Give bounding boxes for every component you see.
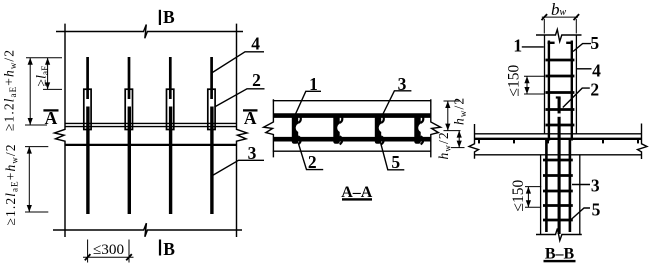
lower wall tie 1	[543, 159, 573, 162]
slab bar tick 2	[513, 140, 515, 143]
right break line	[431, 99, 441, 157]
leader label 4	[576, 68, 591, 70]
svg-text:5: 5	[391, 152, 400, 172]
arrow down dim laE	[45, 82, 50, 89]
floor slab second line	[65, 126, 237, 128]
floor slab bottom line	[65, 144, 237, 146]
slab right break	[638, 124, 648, 160]
upper wall tie 5	[546, 124, 575, 127]
lower wall right vertical bar	[569, 140, 572, 233]
svg-text:5: 5	[592, 199, 601, 219]
center dowel bar	[558, 98, 561, 235]
bar pair blob 2	[333, 115, 345, 145]
dim bw extension left	[543, 19, 545, 34]
slab bar tick 3	[547, 140, 549, 143]
dim bw line	[542, 16, 578, 18]
rebar 4 lower thick	[210, 107, 213, 215]
wall left edge line with break	[55, 24, 66, 237]
svg-text:A: A	[45, 108, 58, 128]
wall top boundary line with break	[56, 25, 243, 39]
dim 300 tick left	[85, 254, 91, 260]
dim laE extension bottom	[43, 88, 62, 90]
upper wall tie 2	[546, 75, 575, 78]
lower wall tie 2	[543, 174, 573, 177]
arrow down hw/2 lower	[457, 141, 462, 148]
rebar 1 upper thin	[86, 57, 89, 99]
rebar 2 upper thin	[128, 57, 131, 99]
rebar 2 lower thick	[128, 107, 131, 215]
lower wall right edge	[579, 155, 581, 234]
leader for label 3	[212, 160, 264, 176]
horizontal bar bottom thick	[273, 137, 431, 142]
rebar 2 splice rect	[125, 89, 132, 129]
dim bw extension right	[575, 19, 577, 34]
dim hw/2 extension 1	[444, 100, 460, 102]
leader label 5 lower	[569, 208, 590, 222]
upper wall break line	[536, 30, 582, 42]
arrow up dim 1.2laE	[28, 58, 33, 65]
lower wall left vertical bar	[545, 140, 548, 233]
leader label 3 lower	[572, 184, 590, 186]
svg-text:4: 4	[251, 33, 260, 53]
leader for label 4	[212, 52, 264, 73]
dim 300 tick right	[126, 254, 132, 260]
section mark B bottom bar	[159, 240, 161, 256]
upper wall tie 1	[546, 59, 575, 62]
arrow up hw/2 lower	[457, 131, 462, 138]
upper wall left edge	[544, 35, 546, 134]
horizontal bar top thick	[273, 113, 431, 118]
svg-text:2: 2	[252, 70, 261, 90]
dim 1.2laE top extension uses same top line; dim line	[29, 58, 31, 125]
dim hw/2 upper line	[447, 101, 449, 131]
leader for label 1	[295, 91, 321, 114]
section mark B top bar	[159, 10, 161, 25]
svg-text:B: B	[163, 7, 175, 27]
floor slab bottom face line	[475, 154, 642, 156]
svg-text:3: 3	[591, 175, 600, 195]
svg-text:B–B: B–B	[545, 245, 575, 262]
upper wall right edge	[575, 35, 577, 134]
top interrupted tie left	[548, 42, 555, 44]
rebar 3 splice rect	[167, 89, 174, 129]
floor slab top line	[65, 122, 237, 124]
lower wall tie 4	[543, 204, 573, 207]
svg-text:≤300: ≤300	[93, 241, 125, 258]
dim 150 lower line	[527, 187, 529, 208]
dim hw/2 extension 2	[444, 130, 461, 132]
arrow up dim laE	[45, 58, 50, 65]
arrow down lower dim	[27, 205, 32, 212]
lower wall left edge	[540, 155, 542, 234]
slab bar tick 4	[602, 140, 604, 143]
rebar 4 splice rect	[208, 89, 215, 129]
dim 150 lower extension bottom	[525, 206, 541, 208]
dim 1.2laE bottom extension	[25, 124, 47, 126]
svg-text:1: 1	[513, 35, 522, 55]
svg-text:≤150: ≤150	[510, 179, 527, 211]
leader label 1	[522, 46, 544, 48]
leader for label 3	[383, 91, 412, 115]
lower wall tie 3	[543, 190, 573, 193]
wall bottom boundary line with break	[53, 223, 242, 237]
dim 150 upper extension top	[524, 75, 544, 77]
svg-text:≤150: ≤150	[506, 64, 523, 96]
arrow up hw/2 upper	[445, 101, 450, 108]
arrow down dim150 lower	[526, 200, 531, 207]
left break line	[264, 99, 274, 157]
svg-text:B: B	[163, 239, 175, 259]
bar pair blob 3	[375, 115, 387, 145]
wall face bottom line	[273, 150, 432, 152]
bar pair blob 1	[292, 115, 304, 145]
dim laE line	[47, 58, 49, 90]
bar group blobs in section A-A	[292, 115, 426, 145]
svg-text:2: 2	[590, 79, 599, 99]
arrow down dim 1.2laE	[28, 118, 33, 125]
floor slab top face line	[475, 133, 642, 135]
upper wall left vertical bar	[548, 41, 550, 141]
arrow up lower dim	[27, 147, 32, 154]
arrow down dim150 upper	[524, 87, 529, 94]
lower dim line	[28, 147, 30, 212]
dim 150 upper line	[526, 76, 528, 94]
floor slab thick bar line	[475, 138, 642, 140]
rebar 1 lower thick	[86, 107, 89, 215]
slab bar tick 1	[478, 140, 480, 143]
section mark A right overline	[243, 109, 258, 111]
leader label 5 top	[573, 44, 591, 52]
arrow down hw/2 upper	[445, 124, 450, 131]
svg-text:1: 1	[309, 74, 318, 94]
center dowel bar cap	[556, 96, 561, 98]
svg-text:2: 2	[308, 152, 317, 172]
leader for label 2	[298, 142, 323, 169]
svg-text:4: 4	[592, 60, 601, 80]
svg-text:A: A	[244, 108, 257, 128]
lower dim bottom extension	[25, 211, 48, 213]
white gap in left-figure bars (splice gap)	[86, 99, 561, 117]
dim 300 extension lines	[87, 240, 89, 263]
dim hw/2 lower line	[458, 131, 460, 148]
rebar 4 upper thin	[210, 57, 213, 99]
section mark A left overline	[43, 109, 58, 111]
svg-text:3: 3	[398, 74, 407, 94]
rebar 3 upper thin	[169, 57, 172, 99]
rebar 3 lower thick	[169, 107, 172, 215]
lower wall tie 5	[543, 219, 573, 222]
upper wall tie 3	[546, 91, 575, 94]
bar pair blob 4	[414, 115, 426, 145]
wall right edge line with break	[237, 24, 248, 237]
leader for label 2	[215, 89, 265, 107]
arrow up dim150 upper	[524, 76, 529, 83]
svg-text:5: 5	[590, 33, 599, 53]
dim 300 line	[83, 256, 134, 258]
top interrupted tie right	[566, 42, 573, 44]
wall face top line	[273, 100, 432, 102]
slab bar tick 5	[637, 140, 639, 143]
title A-A underline	[342, 198, 372, 200]
title B-B underline	[544, 260, 576, 262]
dim bw tick right	[574, 14, 580, 20]
rebar 1 splice rect	[84, 89, 91, 129]
white gap in B-B center bar	[557, 113, 560, 116]
slab left break	[469, 124, 479, 159]
dim laE extension top	[26, 57, 62, 59]
dim 150 upper extension bottom	[524, 93, 544, 95]
leader for label 5	[381, 142, 405, 169]
upper wall right vertical bar	[571, 41, 573, 141]
dim bw tick left	[542, 14, 548, 20]
upper wall tie 4	[546, 108, 575, 111]
svg-text:3: 3	[248, 143, 257, 163]
dim hw/2 extension 3	[451, 147, 465, 149]
lower dim top extension	[25, 146, 48, 148]
leader label 2	[563, 88, 590, 107]
dim 150 lower extension top	[525, 186, 541, 188]
arrow up dim150 lower	[526, 187, 531, 194]
lower wall break line	[536, 229, 582, 241]
